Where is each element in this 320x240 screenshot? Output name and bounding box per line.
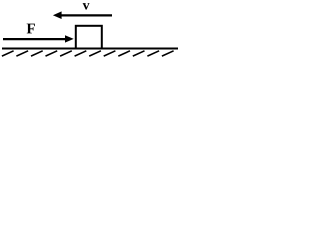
label v <box>83 3 90 10</box>
background <box>0 0 185 71</box>
velocity arrow v (pointing left) <box>53 11 112 19</box>
force arrow F (pointing right) <box>3 35 74 42</box>
block <box>76 26 102 49</box>
ground hatching <box>2 51 174 56</box>
label F <box>27 24 35 34</box>
ground line <box>2 48 178 50</box>
